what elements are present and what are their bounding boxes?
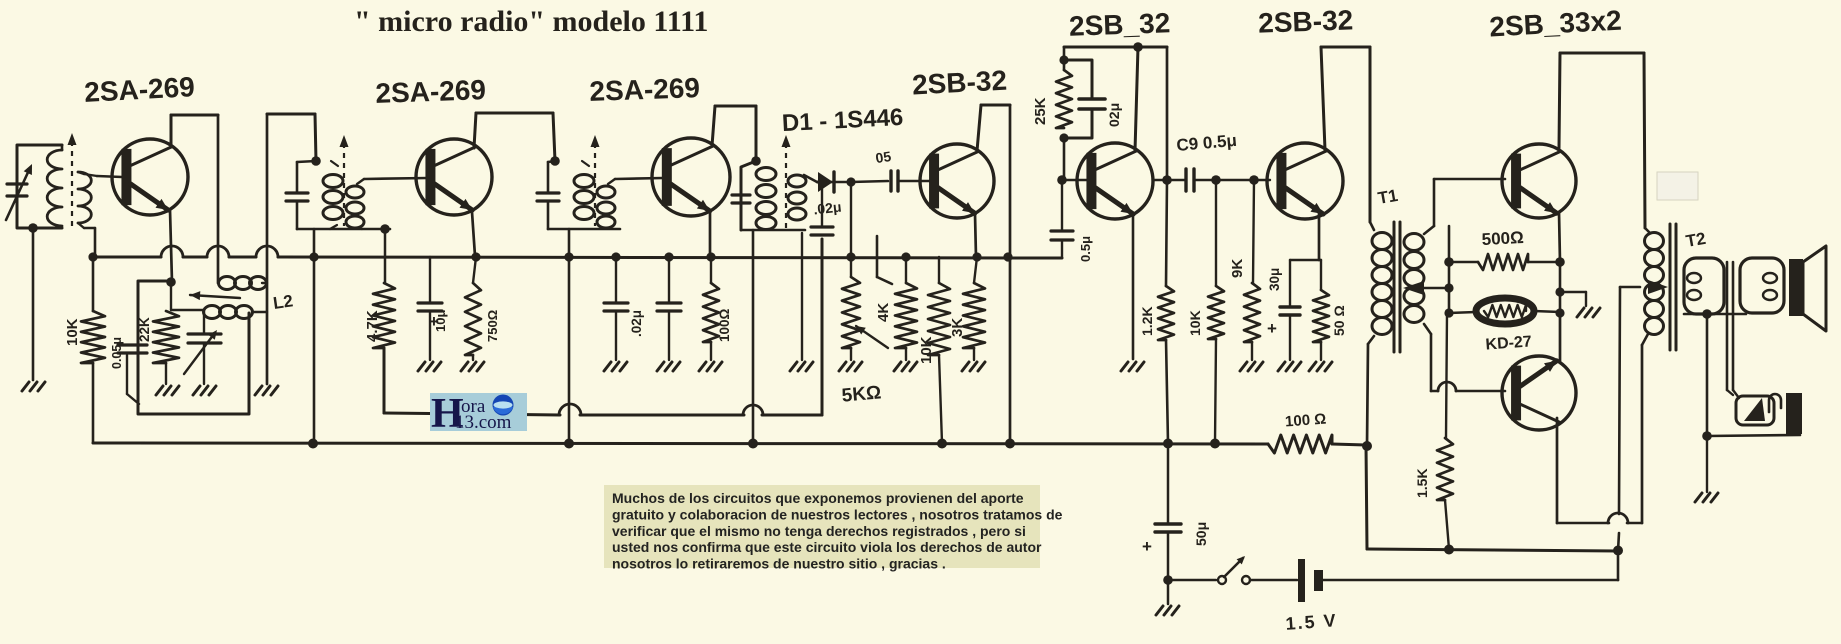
- svg-text:4K: 4K: [875, 303, 892, 322]
- svg-text:2SB-32: 2SB-32: [911, 65, 1007, 101]
- svg-text:" micro radio" modelo 1111: " micro radio" modelo 1111: [354, 5, 708, 38]
- svg-text:750Ω: 750Ω: [485, 310, 500, 342]
- svg-text:50 Ω: 50 Ω: [1331, 305, 1347, 336]
- svg-text:100 Ω: 100 Ω: [1285, 411, 1327, 431]
- svg-text:0.5μ: 0.5μ: [1078, 236, 1093, 262]
- svg-text:10K: 10K: [918, 336, 935, 364]
- svg-text:.02μ: .02μ: [813, 199, 843, 218]
- svg-text:500Ω: 500Ω: [1481, 228, 1524, 249]
- svg-text:2SB_32: 2SB_32: [1069, 7, 1171, 42]
- svg-text:gratuito y colaboracion de nue: gratuito y colaboracion de nuestros lect…: [612, 506, 1063, 522]
- svg-text:4.7K: 4.7K: [364, 310, 381, 342]
- svg-text:10K: 10K: [1187, 310, 1203, 336]
- svg-text:100Ω: 100Ω: [717, 308, 732, 342]
- svg-text:30μ: 30μ: [1267, 268, 1282, 291]
- svg-text:0.05μ: 0.05μ: [110, 337, 124, 369]
- svg-text:KD-27: KD-27: [1485, 333, 1532, 353]
- svg-text:.02μ: .02μ: [629, 310, 644, 337]
- svg-text:+: +: [1267, 319, 1277, 338]
- svg-text:5KΩ: 5KΩ: [841, 382, 882, 406]
- svg-text:L2: L2: [272, 291, 294, 313]
- svg-text:verificar que el mismo no teng: verificar que el mismo no tenga derechos…: [612, 523, 1026, 539]
- svg-text:25K: 25K: [1032, 97, 1049, 125]
- svg-text:1.2K: 1.2K: [1139, 306, 1155, 336]
- svg-text:1.5 V: 1.5 V: [1285, 610, 1338, 634]
- svg-text:02μ: 02μ: [1106, 103, 1122, 127]
- svg-text:05: 05: [874, 148, 892, 166]
- svg-text:1.5K: 1.5K: [1414, 468, 1430, 498]
- svg-text:3K: 3K: [949, 318, 966, 337]
- svg-text:2SA-269: 2SA-269: [84, 71, 196, 108]
- svg-text:+: +: [1142, 537, 1152, 556]
- svg-text:+: +: [429, 312, 439, 331]
- svg-text:nosotros lo retiraremos de nue: nosotros lo retiraremos de nuestro sitio…: [612, 556, 946, 572]
- svg-text:2SA-269: 2SA-269: [589, 72, 701, 107]
- svg-text:2SB-32: 2SB-32: [1258, 4, 1354, 38]
- svg-text:50μ: 50μ: [1193, 522, 1209, 546]
- svg-text:10K: 10K: [64, 318, 81, 346]
- svg-text:2SA-269: 2SA-269: [375, 74, 487, 109]
- svg-text:usted nos confirma que este ci: usted nos confirma que este circuito vio…: [612, 539, 1042, 555]
- svg-text:T1: T1: [1376, 186, 1399, 208]
- svg-text:9K: 9K: [1229, 259, 1246, 278]
- svg-text:T2: T2: [1684, 229, 1707, 251]
- svg-text:13.com: 13.com: [455, 412, 512, 433]
- svg-text:22K: 22K: [137, 317, 152, 342]
- svg-text:Muchos de los circuitos que ex: Muchos de los circuitos que exponemos pr…: [612, 490, 1024, 506]
